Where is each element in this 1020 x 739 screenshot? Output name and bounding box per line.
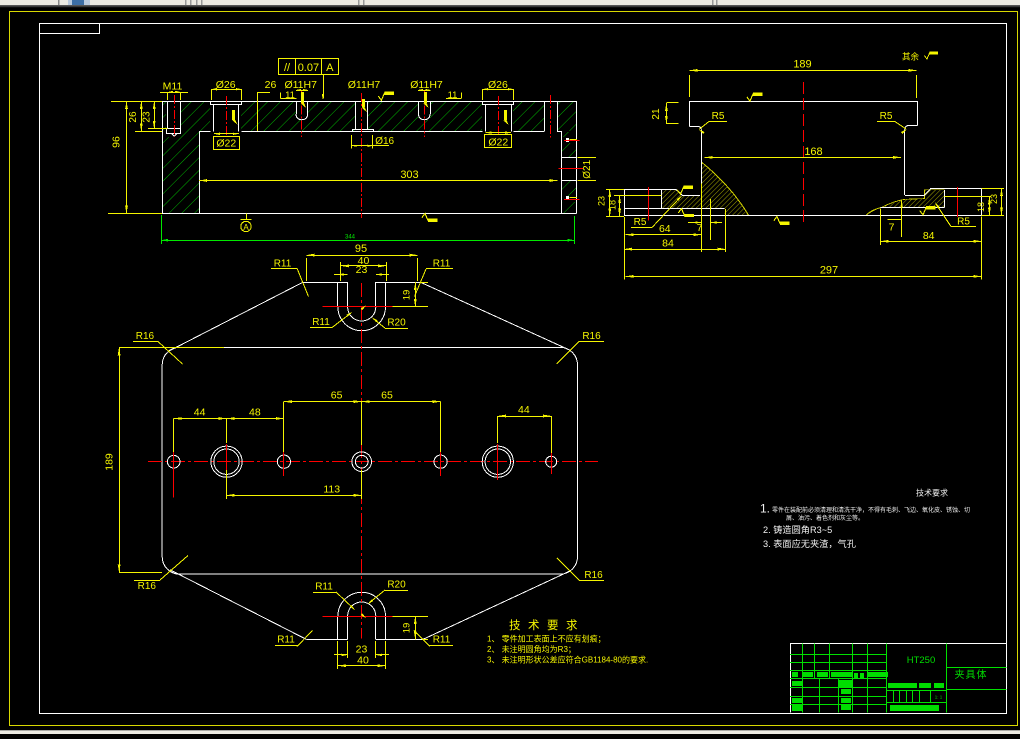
svg-text:Ø21: Ø21 (582, 159, 593, 178)
svg-text:26: 26 (265, 79, 277, 91)
svg-text:Ø16: Ø16 (375, 136, 394, 147)
svg-text:65: 65 (381, 390, 393, 402)
svg-text:M11: M11 (163, 81, 183, 93)
svg-text:3. 表面应无夹渣，气孔: 3. 表面应无夹渣，气孔 (763, 538, 856, 549)
svg-text:技术要求: 技术要求 (916, 488, 948, 498)
svg-text:297: 297 (820, 265, 838, 277)
svg-text:1.: 1. (760, 502, 770, 516)
svg-text:23: 23 (596, 196, 606, 206)
svg-text:R16: R16 (584, 570, 603, 581)
svg-text:3、 未注明形状公差应符合GB1184-80的要求.: 3、 未注明形状公差应符合GB1184-80的要求. (487, 655, 648, 665)
svg-text:18: 18 (608, 200, 618, 210)
svg-text:R20: R20 (387, 580, 406, 591)
svg-text:HT250: HT250 (907, 655, 936, 666)
svg-text:23: 23 (142, 111, 153, 123)
svg-text:7: 7 (889, 222, 895, 234)
svg-text:R5: R5 (880, 111, 893, 122)
svg-text:84: 84 (662, 238, 674, 250)
svg-text:Ø11H7: Ø11H7 (348, 79, 381, 91)
svg-text:303: 303 (400, 169, 418, 181)
svg-text:7: 7 (697, 222, 703, 234)
svg-text:R5: R5 (957, 217, 970, 228)
svg-text:44: 44 (518, 404, 530, 416)
svg-text:18: 18 (976, 202, 986, 212)
svg-text:其余: 其余 (902, 52, 920, 62)
svg-text:19: 19 (402, 290, 413, 301)
svg-text:A: A (326, 62, 334, 74)
svg-text:R16: R16 (136, 331, 155, 342)
svg-text:23: 23 (356, 264, 368, 276)
svg-text:夹具体: 夹具体 (955, 668, 988, 681)
svg-text:19: 19 (402, 623, 413, 634)
svg-text:95: 95 (355, 243, 367, 255)
svg-text:23: 23 (989, 194, 999, 204)
svg-text:R11: R11 (315, 582, 333, 593)
svg-text:21: 21 (651, 108, 662, 120)
svg-text:R16: R16 (138, 581, 157, 592)
svg-text:44: 44 (194, 407, 206, 419)
svg-text:R11: R11 (433, 259, 451, 270)
svg-text:168: 168 (804, 146, 822, 158)
svg-text:40: 40 (357, 655, 369, 667)
svg-text:11: 11 (448, 90, 458, 101)
svg-text:屑、油污、着色剂和灰尘等。: 屑、油污、着色剂和灰尘等。 (786, 514, 864, 522)
svg-text:R20: R20 (387, 318, 406, 329)
svg-text:Ø22: Ø22 (488, 136, 508, 148)
svg-text:R11: R11 (274, 259, 292, 270)
svg-text://: // (284, 62, 291, 74)
svg-text:96: 96 (111, 136, 123, 148)
svg-text:48: 48 (249, 407, 261, 419)
svg-text:26: 26 (128, 111, 139, 123)
svg-text:2. 铸造圆角R3~5: 2. 铸造圆角R3~5 (763, 524, 832, 535)
svg-text:1: 1: 1: 1 (935, 695, 943, 700)
svg-text:R11: R11 (433, 635, 451, 646)
svg-text:189: 189 (793, 59, 811, 71)
svg-text:R16: R16 (582, 331, 601, 342)
svg-text:R11: R11 (312, 317, 330, 328)
svg-text:189: 189 (104, 453, 116, 471)
svg-text:A: A (243, 223, 249, 232)
svg-text:2、 未注明圆角均为R3；: 2、 未注明圆角均为R3； (487, 644, 576, 654)
svg-text:11: 11 (285, 90, 295, 101)
svg-text:R11: R11 (277, 635, 295, 646)
svg-text:64: 64 (659, 223, 671, 235)
svg-text:65: 65 (331, 390, 343, 402)
svg-text:84: 84 (923, 230, 935, 242)
svg-text:113: 113 (323, 484, 340, 496)
svg-text:零件在装配前必须清理和清洗干净，不得有毛刺、飞边、氧化皮、锈: 零件在装配前必须清理和清洗干净，不得有毛刺、飞边、氧化皮、锈蚀、切 (772, 506, 970, 514)
svg-text:技术要求: 技术要求 (509, 619, 585, 632)
svg-text:344: 344 (345, 235, 356, 241)
svg-text:R5: R5 (634, 217, 647, 228)
svg-text:1、 零件加工表面上不应有划痕；: 1、 零件加工表面上不应有划痕； (487, 634, 606, 644)
svg-text:Ø22: Ø22 (216, 138, 236, 150)
svg-text:0.07: 0.07 (298, 62, 319, 74)
svg-text:R5: R5 (712, 111, 725, 122)
